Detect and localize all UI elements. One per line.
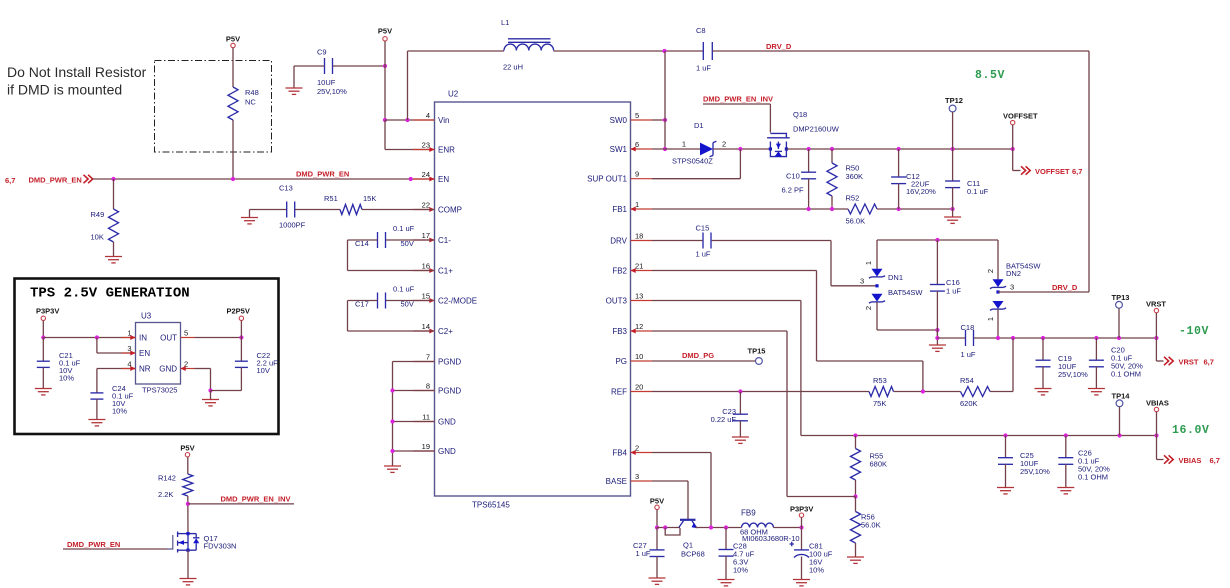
svg-text:0.1 uF: 0.1 uF <box>393 285 415 294</box>
wire P5V to DMD_PWR_EN rail <box>232 48 234 87</box>
svg-text:OUT: OUT <box>160 333 177 342</box>
svg-text:DN2: DN2 <box>1006 269 1021 278</box>
svg-text:Vin: Vin <box>438 116 449 125</box>
wire FB3 net <box>652 330 787 332</box>
capacitor C12 <box>898 149 900 177</box>
U2 pin 18 DRV <box>631 240 653 242</box>
svg-text:TP13: TP13 <box>1112 293 1130 302</box>
svg-text:1 uF: 1 uF <box>636 549 651 558</box>
svg-text:P5V: P5V <box>180 444 194 453</box>
svg-text:FB3: FB3 <box>612 327 627 336</box>
resistor R56 <box>855 497 857 512</box>
wire C9 right to P5V <box>333 65 385 67</box>
svg-text:0.1 uF: 0.1 uF <box>393 224 415 233</box>
wire Q18 drain to VOFFSET rail <box>786 148 1012 150</box>
svg-text:15K: 15K <box>363 194 376 203</box>
wire C13 ground stub <box>249 210 251 218</box>
svg-text:L1: L1 <box>501 18 509 27</box>
svg-text:OUT3: OUT3 <box>606 296 628 305</box>
svg-text:VBIAS: VBIAS <box>1146 399 1169 408</box>
svg-text:C18: C18 <box>961 323 975 332</box>
wire FB1 rail <box>652 208 848 210</box>
svg-text:8: 8 <box>426 381 430 390</box>
wire R52 to ground rail <box>877 208 953 210</box>
svg-text:20: 20 <box>635 382 643 391</box>
svg-text:R54: R54 <box>960 376 974 385</box>
wire Q1 emitter row <box>695 527 741 529</box>
svg-text:C13: C13 <box>279 184 293 193</box>
svg-text:25V,10%: 25V,10% <box>1020 467 1050 476</box>
wire ENR to P5V <box>385 149 434 151</box>
svg-text:22: 22 <box>422 200 430 209</box>
resistor R53 <box>869 387 894 397</box>
ground C26 <box>1057 487 1074 489</box>
ground C28 <box>718 579 735 581</box>
svg-text:TPS 2.5V GENERATION: TPS 2.5V GENERATION <box>30 286 190 302</box>
U3 pin 5 OUT <box>181 337 195 339</box>
svg-text:10%: 10% <box>809 566 824 575</box>
svg-text:FB9: FB9 <box>741 509 756 518</box>
resistor R51 <box>295 209 340 211</box>
svg-text:10%: 10% <box>59 374 74 383</box>
svg-text:3: 3 <box>1010 283 1014 292</box>
svg-text:TP15: TP15 <box>748 347 766 356</box>
U2 pin 20 REF <box>631 391 653 393</box>
U2 pin 4 Vin <box>413 119 435 121</box>
wire SUP OUT1 branch <box>739 149 741 179</box>
svg-text:0.1 OHM: 0.1 OHM <box>1078 473 1108 482</box>
svg-text:2: 2 <box>722 140 726 149</box>
ground R56 <box>847 556 864 558</box>
svg-text:10: 10 <box>635 352 643 361</box>
U2 pin 21 FB2 <box>631 270 653 272</box>
svg-text:SW0: SW0 <box>610 116 628 125</box>
svg-text:COMP: COMP <box>438 205 462 214</box>
svg-text:C1-: C1- <box>438 236 451 245</box>
wire DMD_PWR_EN_INV out <box>188 503 294 505</box>
wire R142 to Q17 drain <box>187 496 189 534</box>
svg-text:C9: C9 <box>317 48 327 57</box>
svg-text:C2-/MODE: C2-/MODE <box>438 296 477 305</box>
svg-text:R51: R51 <box>324 194 338 203</box>
wire L1 to C8 <box>554 50 704 52</box>
capacitor C18 <box>965 330 967 346</box>
wire VRST rail right <box>974 337 1157 339</box>
svg-text:5: 5 <box>184 328 188 337</box>
capacitor C23 <box>739 392 741 415</box>
svg-text:14: 14 <box>422 322 430 331</box>
svg-text:C2+: C2+ <box>438 327 453 336</box>
svg-text:1: 1 <box>864 261 873 265</box>
ground Q17 <box>180 578 197 580</box>
svg-text:TPS65145: TPS65145 <box>472 501 510 510</box>
capacitor C10 <box>808 149 810 172</box>
svg-text:R52: R52 <box>846 194 860 203</box>
capacitor C14 <box>377 232 379 248</box>
capacitor C15 <box>652 240 702 242</box>
svg-text:TP14: TP14 <box>1112 392 1131 401</box>
resistor R49 <box>113 179 115 209</box>
wire Q1 collector loop <box>665 528 680 536</box>
svg-text:DMD_PWR_EN: DMD_PWR_EN <box>296 170 349 179</box>
svg-text:2.2K: 2.2K <box>158 490 173 499</box>
U2 pin 10 PG <box>631 360 653 362</box>
svg-text:10V: 10V <box>257 366 270 375</box>
svg-text:P5V: P5V <box>378 27 392 36</box>
svg-text:23: 23 <box>422 140 430 149</box>
wire C15 to DN1 <box>712 240 831 242</box>
svg-text:Do Not Install Resistor: Do Not Install Resistor <box>7 64 147 80</box>
svg-text:0.1 uF: 0.1 uF <box>967 187 989 196</box>
svg-text:1 uF: 1 uF <box>696 64 711 73</box>
capacitor C25 <box>1005 436 1007 458</box>
wire REF row <box>652 391 869 393</box>
wire DMD_PWR_EN rail <box>93 178 435 180</box>
wire VBIAS rail <box>801 435 1157 437</box>
svg-text:STPS0540Z: STPS0540Z <box>672 156 713 165</box>
svg-text:SUP OUT1: SUP OUT1 <box>587 175 627 184</box>
svg-text:C15: C15 <box>696 224 710 233</box>
off-page VRST <box>1155 338 1157 361</box>
resistor R52 <box>848 204 877 214</box>
svg-text:VRST: VRST <box>1146 300 1166 309</box>
resistor R50 <box>831 149 833 163</box>
TPS generation frame <box>15 279 279 435</box>
U2 pin 24 EN <box>413 178 435 180</box>
svg-text:DRV: DRV <box>610 236 627 245</box>
U2 pin 9 SUP OUT1 <box>631 178 653 180</box>
wire P5V to R142 <box>187 457 189 474</box>
svg-text:DMD_PWR_EN: DMD_PWR_EN <box>29 176 82 185</box>
svg-text:18: 18 <box>635 231 643 240</box>
U2 pin 11 GND <box>413 421 435 423</box>
wire Q17 source to ground <box>187 550 189 578</box>
svg-text:10K: 10K <box>91 233 104 242</box>
capacitor C22 <box>240 338 242 362</box>
svg-text:P3P3V: P3P3V <box>790 505 813 514</box>
U2 pin 16 C1+ <box>413 270 435 272</box>
U3 pin 4 NR <box>122 368 136 370</box>
svg-text:BASE: BASE <box>606 477 627 486</box>
resistor R54 <box>961 387 991 397</box>
svg-text:17: 17 <box>422 231 430 240</box>
wire DN2 pin3 DRV_D <box>998 291 1089 293</box>
U2 pin 19 GND <box>413 450 435 452</box>
svg-text:1: 1 <box>986 317 995 321</box>
svg-text:DMD_PWR_EN: DMD_PWR_EN <box>67 540 120 549</box>
wire C14 loop to C1+ <box>348 239 378 241</box>
resistor R55 <box>855 436 857 449</box>
wire FB4 net <box>652 452 711 454</box>
svg-text:VOFFSET: VOFFSET <box>1003 112 1038 121</box>
svg-text:16.0V: 16.0V <box>1172 424 1210 437</box>
capacitor C28 <box>725 528 727 550</box>
ground C13 <box>241 217 258 219</box>
svg-text:GND: GND <box>438 447 456 456</box>
svg-text:16: 16 <box>422 261 430 270</box>
svg-text:1000PF: 1000PF <box>279 221 306 230</box>
svg-text:1 uF: 1 uF <box>696 250 711 259</box>
svg-text:FDV303N: FDV303N <box>204 542 237 551</box>
U2 pin 23 ENR <box>413 149 435 151</box>
svg-text:VRST: VRST <box>1179 358 1199 367</box>
wire R54 riser <box>1012 338 1014 392</box>
svg-text:C1+: C1+ <box>438 266 453 275</box>
svg-text:R48: R48 <box>245 88 259 97</box>
svg-text:MI0603J680R-10: MI0603J680R-10 <box>742 534 800 543</box>
svg-text:GND: GND <box>438 417 456 426</box>
svg-text:2: 2 <box>864 306 873 310</box>
wire OUT to P2P5V <box>195 337 242 339</box>
ground R49 <box>105 256 122 258</box>
svg-text:6,7: 6,7 <box>1204 358 1214 367</box>
svg-text:24: 24 <box>422 170 430 179</box>
wire P5V down to Vin <box>384 41 386 120</box>
svg-text:56.0K: 56.0K <box>861 521 881 530</box>
svg-text:P3P3V: P3P3V <box>36 307 59 316</box>
svg-text:50V: 50V <box>401 299 414 308</box>
ground C9 <box>286 87 303 89</box>
svg-text:6,7: 6,7 <box>5 176 15 185</box>
wire Vin to L1 riser <box>407 51 409 120</box>
svg-text:BCP68: BCP68 <box>681 550 705 559</box>
capacitor C11 <box>952 149 954 181</box>
wire C8 to DRV_D right <box>712 50 1089 52</box>
svg-text:0.1 OHM: 0.1 OHM <box>1111 370 1141 379</box>
ground C20 <box>1088 388 1105 390</box>
capacitor C27 <box>656 528 658 551</box>
wire SW riser <box>664 51 666 149</box>
wire DMD_PWR_EN_INV to Q18 gate <box>703 103 770 105</box>
capacitor C19 <box>1042 338 1044 360</box>
svg-text:10%: 10% <box>733 566 748 575</box>
svg-text:ENR: ENR <box>438 145 455 154</box>
svg-text:PGND: PGND <box>438 386 461 395</box>
svg-text:C10: C10 <box>786 172 800 181</box>
svg-text:Q18: Q18 <box>793 110 807 119</box>
resistor R48 <box>228 87 238 120</box>
svg-text:19: 19 <box>422 442 430 451</box>
svg-text:0.22 uF: 0.22 uF <box>711 415 737 424</box>
capacitor C21 <box>42 338 44 362</box>
capacitor C16 <box>936 240 938 285</box>
svg-text:11: 11 <box>422 412 430 421</box>
wire EN branch <box>96 338 98 354</box>
U2 pin 5 SW0 <box>631 119 653 121</box>
svg-text:U3: U3 <box>141 312 152 321</box>
U2 pin 8 PGND <box>413 390 435 392</box>
svg-text:DMD_PWR_EN_INV: DMD_PWR_EN_INV <box>703 95 773 104</box>
wire DN1 bottom <box>876 302 878 330</box>
wire DN1 top rail <box>877 239 998 241</box>
wire SW1 to D1 <box>652 148 700 150</box>
svg-text:PG: PG <box>615 357 627 366</box>
ground U2 <box>384 465 401 467</box>
resistor R142 <box>183 474 193 496</box>
wire L1 input <box>408 50 505 52</box>
svg-text:75K: 75K <box>873 399 886 408</box>
svg-text:DMD_PWR_EN_INV: DMD_PWR_EN_INV <box>221 495 291 504</box>
capacitor C26 <box>1065 436 1067 458</box>
ground C16/C18 <box>936 338 938 345</box>
svg-text:5: 5 <box>635 111 639 120</box>
wire BASE net <box>652 480 688 482</box>
capacitor C17 <box>377 293 379 309</box>
U2 pin 6 SW1 <box>631 148 653 150</box>
ground C19 <box>1035 388 1052 390</box>
off-page VOFFSET <box>1012 149 1014 171</box>
transistor Q17 FDV303N <box>167 535 173 549</box>
svg-text:R142: R142 <box>158 474 176 483</box>
svg-text:TPS73025: TPS73025 <box>142 386 177 395</box>
svg-text:REF: REF <box>611 387 627 396</box>
svg-text:P2P5V: P2P5V <box>227 307 250 316</box>
svg-text:7: 7 <box>426 352 430 361</box>
svg-text:TP12: TP12 <box>945 96 963 105</box>
wire R53 to R54 <box>894 391 961 393</box>
svg-text:FB1: FB1 <box>612 205 627 214</box>
svg-text:SW1: SW1 <box>610 145 628 154</box>
ground C23 <box>732 436 749 438</box>
svg-text:3: 3 <box>860 277 864 286</box>
U2 pin 7 PGND <box>413 361 435 363</box>
wire C17 loop to C2+ <box>348 300 378 302</box>
svg-text:FB2: FB2 <box>612 266 627 275</box>
svg-text:P5V: P5V <box>650 497 664 506</box>
wire C9 left to ground <box>294 65 324 67</box>
wire SW0 to riser <box>652 119 665 121</box>
wire PG to TP15 <box>652 360 755 362</box>
svg-text:6,7: 6,7 <box>1072 167 1082 176</box>
svg-text:FB4: FB4 <box>612 448 627 457</box>
U3 pin 3 EN <box>122 352 136 354</box>
capacitor C24 <box>90 392 103 394</box>
wire P5V to Q1 row <box>656 510 658 528</box>
capacitor C20 <box>1095 338 1097 360</box>
wire P3P3V to IN <box>42 321 44 338</box>
off-page VBIAS <box>1156 436 1158 460</box>
svg-text:50V: 50V <box>401 239 414 248</box>
svg-text:DMD_PG: DMD_PG <box>682 351 714 360</box>
svg-text:DRV_D: DRV_D <box>766 42 792 51</box>
svg-text:25V,10%: 25V,10% <box>317 87 347 96</box>
wire U3 GND net <box>195 368 211 370</box>
ground C24 <box>88 419 105 421</box>
svg-text:-10V: -10V <box>1179 325 1209 338</box>
wire Vin row <box>385 119 434 121</box>
svg-text:IN: IN <box>139 333 147 342</box>
svg-text:620K: 620K <box>960 399 978 408</box>
svg-text:2: 2 <box>986 269 995 273</box>
wire D1 to Q18 <box>713 148 770 150</box>
svg-text:P5V: P5V <box>226 35 240 44</box>
svg-text:8.5V: 8.5V <box>975 69 1005 82</box>
svg-text:1 uF: 1 uF <box>946 287 961 296</box>
svg-text:VOFFSET: VOFFSET <box>1035 167 1070 176</box>
svg-text:13: 13 <box>635 291 643 300</box>
svg-text:EN: EN <box>438 175 449 184</box>
wire VRST rail <box>936 330 938 338</box>
U2 pin 12 FB3 <box>631 330 653 332</box>
svg-text:21: 21 <box>635 261 643 270</box>
svg-text:10UF: 10UF <box>317 78 336 87</box>
svg-text:6,7: 6,7 <box>1210 456 1220 465</box>
svg-text:3: 3 <box>635 472 639 481</box>
wire C2- row <box>386 300 434 302</box>
U2 pin 2 FB4 <box>631 452 653 454</box>
svg-text:10%: 10% <box>112 407 127 416</box>
U2 pin 22 COMP <box>413 209 435 211</box>
svg-text:DN1: DN1 <box>888 273 903 282</box>
ground U3 <box>210 391 212 400</box>
svg-text:12: 12 <box>635 322 643 331</box>
svg-text:U2: U2 <box>448 90 459 99</box>
wire OUT3 to VBIAS rail <box>652 300 801 302</box>
svg-text:D1: D1 <box>694 121 704 130</box>
svg-text:VBIAS: VBIAS <box>1179 456 1202 465</box>
transistor Q1 BCP68 <box>680 519 696 521</box>
svg-text:if DMD is mounted: if DMD is mounted <box>7 82 122 98</box>
svg-text:BAT54SW: BAT54SW <box>888 288 923 297</box>
svg-text:PGND: PGND <box>438 357 461 366</box>
svg-text:EN: EN <box>139 349 150 358</box>
svg-text:56.0K: 56.0K <box>846 217 866 226</box>
capacitor C81 <box>801 528 803 550</box>
svg-text:22 uH: 22 uH <box>503 63 523 72</box>
wire DMD_PWR_EN to Q17 gate <box>63 548 167 550</box>
svg-text:R53: R53 <box>873 376 887 385</box>
ground C25 <box>997 487 1014 489</box>
svg-text:DMP2160UW: DMP2160UW <box>793 125 840 134</box>
svg-text:680K: 680K <box>870 460 888 469</box>
svg-text:6.2 PF: 6.2 PF <box>782 186 805 195</box>
svg-text:1: 1 <box>682 140 686 149</box>
U2 pin 3 BASE <box>631 480 653 482</box>
svg-text:DRV_D: DRV_D <box>1052 283 1078 292</box>
U3 pin 1 IN <box>122 337 136 339</box>
U2 pin 13 OUT3 <box>631 300 653 302</box>
wire NR branch <box>97 368 136 370</box>
U2 pin 1 FB1 <box>631 208 653 210</box>
svg-text:360K: 360K <box>846 172 864 181</box>
svg-text:NC: NC <box>245 98 256 107</box>
svg-text:Q1: Q1 <box>683 540 693 549</box>
ground C21 <box>35 388 52 390</box>
svg-text:16V,20%: 16V,20% <box>906 187 936 196</box>
wire R51 to COMP <box>362 209 434 211</box>
U2 pin 15 C2-/MODE <box>413 300 435 302</box>
U2 pin 14 C2+ <box>413 330 435 332</box>
ground C11 <box>952 209 954 217</box>
ground C81 <box>793 579 810 581</box>
svg-text:1 uF: 1 uF <box>961 350 976 359</box>
svg-text:R49: R49 <box>91 210 105 219</box>
U3 pin 2 GND <box>181 368 195 370</box>
svg-text:9: 9 <box>635 170 639 179</box>
svg-text:NR: NR <box>139 364 151 373</box>
svg-text:15: 15 <box>422 291 430 300</box>
wire FB9 to P3P3V <box>774 527 802 529</box>
wire C1- row <box>386 239 434 241</box>
dashed DNI box <box>155 61 272 153</box>
wire DN2 bottom <box>997 309 999 338</box>
svg-text:C8: C8 <box>696 26 706 35</box>
ground C27 <box>649 577 666 579</box>
U2 pin 17 C1- <box>413 239 435 241</box>
svg-text:4: 4 <box>426 111 430 120</box>
wire FB2 net <box>652 270 817 272</box>
svg-text:25V,10%: 25V,10% <box>1058 370 1088 379</box>
